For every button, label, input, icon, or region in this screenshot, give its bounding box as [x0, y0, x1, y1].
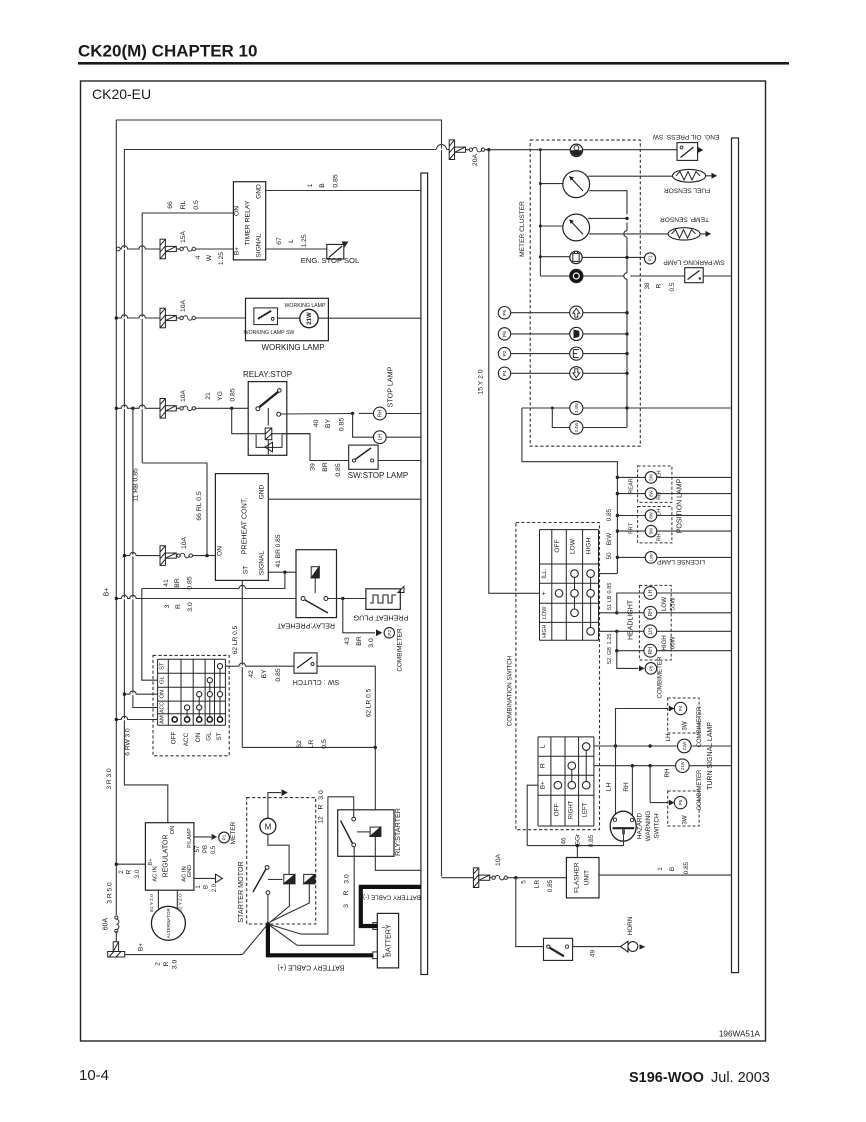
svg-text:57: 57: [195, 845, 201, 852]
wire timer ON 66 RL 0.5: [142, 213, 233, 463]
junction meter feed: [487, 148, 490, 151]
wire preheat GND to ground bar: [268, 498, 421, 500]
svg-text:RH: RH: [664, 769, 671, 778]
svg-text:3.0: 3.0: [172, 960, 179, 970]
horn switch box: [544, 938, 573, 960]
svg-text:TURN SIGNAL LAMP: TURN SIGNAL LAMP: [707, 722, 714, 790]
svg-text:WARNING: WARNING: [645, 811, 652, 842]
fuse F 10A working: [160, 308, 176, 328]
svg-text:0.85: 0.85: [339, 418, 346, 431]
preheat controller box: [215, 474, 268, 581]
wire low RH to ground bar: [657, 612, 732, 614]
svg-text:PREHEAT CONT.: PREHEAT CONT.: [240, 498, 249, 555]
eng stop solenoid: [327, 244, 344, 259]
wire alternator AC1: [157, 890, 159, 908]
wire 3 R 3.0 battery to relay: [297, 847, 354, 946]
svg-text:LICENSE LAMP: LICENSE LAMP: [656, 558, 705, 565]
wire high LH to ground bar: [657, 630, 732, 632]
svg-text:LH: LH: [648, 589, 654, 596]
ground bus bar left: [421, 173, 428, 975]
wire P5 to indicator: [511, 312, 570, 314]
svg-text:0.5: 0.5: [321, 739, 328, 749]
svg-text:B+: B+: [540, 781, 547, 789]
wire preheat relay B+ 3 R 3.0: [116, 598, 301, 600]
svg-text:BR: BR: [356, 636, 363, 646]
svg-text:ENG. STOP SOL: ENG. STOP SOL: [301, 256, 359, 265]
svg-text:10A: 10A: [495, 853, 502, 866]
meter cluster dashed box: [530, 140, 640, 446]
svg-text:RH: RH: [377, 410, 383, 418]
indicator symbol P5: [570, 306, 583, 319]
wire stop coil out to stop lamp switch: [282, 434, 349, 461]
junction clutch node: [374, 746, 377, 749]
svg-text:PB: PB: [203, 845, 209, 853]
indicator symbol P4: [570, 367, 583, 380]
svg-text:AM: AM: [160, 715, 166, 724]
key switch grid: [158, 658, 226, 660]
wire cluster feed: [485, 149, 530, 151]
svg-text:6 RW 3.0: 6 RW 3.0: [125, 728, 132, 756]
wire 60A to battery symbol: [115, 931, 117, 942]
relay preheat contacts: [301, 597, 305, 601]
svg-text:10-4: 10-4: [79, 1067, 109, 1084]
svg-text:B: B: [669, 867, 676, 871]
svg-text:3 R 3.0: 3 R 3.0: [106, 768, 113, 790]
connector P6: [498, 328, 510, 340]
p4 dashed box: [668, 698, 699, 733]
svg-text:51: 51: [607, 604, 613, 610]
svg-text:3: 3: [164, 604, 171, 608]
svg-text:W: W: [206, 254, 213, 261]
hop timer-wire over ON bus: [122, 248, 127, 250]
preheat ST wire 62 LR 0.5: [241, 580, 243, 747]
wire preheat fuse feed: [124, 555, 160, 557]
fuse coil flasher: [492, 876, 508, 880]
parking lamp switch box: [685, 268, 704, 283]
svg-text:1: 1: [307, 183, 314, 187]
svg-text:LOW: LOW: [542, 606, 548, 619]
svg-text:39: 39: [310, 463, 317, 471]
wire license to ground bar: [657, 556, 732, 558]
wire cluster lamp feed from ILL: [522, 407, 552, 409]
svg-text:50: 50: [606, 552, 613, 560]
svg-text:HIGH: HIGH: [586, 538, 593, 555]
wire stop RH to ground bar: [386, 413, 421, 415]
svg-text:LH: LH: [657, 509, 663, 516]
svg-text:B+: B+: [148, 858, 154, 866]
relay preheat box: [296, 550, 337, 618]
wire alternator AC2: [176, 890, 178, 908]
svg-text:5W: 5W: [649, 473, 654, 480]
headlamp HIGH RH: [644, 644, 657, 657]
connector P2 combimeter: [384, 628, 394, 638]
wire hourmeter out: [583, 149, 677, 151]
preheat plug box: [366, 589, 400, 610]
svg-text:LH: LH: [648, 628, 654, 635]
svg-text:55W: 55W: [670, 597, 677, 610]
svg-text:RELAY:STOP: RELAY:STOP: [243, 370, 292, 379]
wire parking switch to ground bar: [703, 275, 731, 277]
svg-text:2: 2: [155, 962, 162, 966]
svg-text:L: L: [540, 744, 547, 748]
svg-text:STOP LAMP: STOP LAMP: [386, 366, 395, 407]
svg-text:B+: B+: [234, 247, 241, 255]
svg-text:60W: 60W: [670, 636, 677, 649]
position lamp RH 5W wire: [616, 529, 619, 532]
svg-text:RH: RH: [657, 533, 663, 541]
wire turn LH to ground bar: [691, 745, 731, 747]
headlight switch grid: [540, 529, 599, 531]
svg-text:RH: RH: [648, 609, 654, 617]
svg-text:ON: ON: [195, 732, 202, 742]
battery feed symbol: [108, 942, 125, 957]
rly starter lever: [341, 821, 353, 844]
svg-text:67: 67: [276, 237, 283, 245]
svg-text:1.25: 1.25: [218, 252, 225, 265]
svg-text:P4: P4: [502, 370, 508, 376]
svg-text:ALTERNATOR: ALTERNATOR: [166, 908, 171, 939]
svg-text:3.4W: 3.4W: [574, 403, 579, 413]
position lamp RH 8W: [645, 488, 657, 500]
wire solenoid2 down: [271, 884, 309, 922]
wire oil indicator to parking switch: [583, 275, 624, 277]
svg-text:P6: P6: [502, 331, 508, 337]
junction preheat signal: [283, 571, 286, 574]
hop working-wire over 66RL vertical: [140, 317, 145, 319]
svg-text:1.25: 1.25: [301, 234, 308, 247]
svg-text:LOW: LOW: [661, 597, 668, 611]
wire stop LH branch: [353, 413, 374, 437]
position lamp LH 8W: [645, 510, 657, 522]
svg-text:10W: 10W: [650, 553, 654, 561]
svg-text:LEFT: LEFT: [583, 802, 589, 817]
header rule: [78, 62, 789, 65]
svg-text:P6: P6: [648, 665, 653, 671]
svg-text:LH: LH: [606, 783, 613, 792]
wire ON bus vertical lower: [124, 556, 167, 823]
hop right bus over temp wire: [624, 231, 627, 237]
svg-text:196WA51A: 196WA51A: [719, 1030, 761, 1039]
starter solenoid coil 2: [304, 874, 315, 883]
fuse F 15A: [160, 239, 176, 259]
svg-text:BY: BY: [325, 419, 332, 429]
svg-text:P1: P1: [648, 255, 653, 261]
svg-text:STARTER MOTOR: STARTER MOTOR: [236, 861, 245, 923]
svg-text:20A: 20A: [472, 153, 479, 166]
fuse F 10A preheat: [160, 546, 176, 566]
wire position RH to ground bar: [657, 493, 732, 495]
position lamp dashed box REAR: [638, 466, 672, 502]
wire working lamp feed: [116, 317, 160, 319]
wire regulator GND 1 B 2.0: [194, 877, 215, 879]
wire key ST out 42 BY 0.85: [225, 665, 239, 667]
svg-text:FRT: FRT: [629, 523, 635, 534]
svg-text:3.0: 3.0: [134, 869, 141, 878]
wire key AM feed: [116, 719, 157, 721]
svg-text:66 RL 0.5: 66 RL 0.5: [196, 491, 203, 520]
wire stop relay out 40 BY 0.85: [281, 413, 353, 416]
junction horn branch: [514, 876, 517, 879]
wire flasher L: [576, 846, 578, 858]
battery cable plus thick: [268, 924, 373, 955]
svg-text:ST: ST: [216, 732, 223, 740]
svg-text:HEADLIGHT: HEADLIGHT: [628, 599, 635, 640]
relay stop contacts: [256, 407, 260, 411]
terminal circle on bus: [116, 247, 120, 251]
svg-text:BATTERY CABLE (-): BATTERY CABLE (-): [363, 894, 421, 901]
wire stop LH to ground bar: [386, 436, 421, 438]
svg-text:R: R: [656, 283, 663, 288]
svg-text:ON: ON: [234, 206, 241, 216]
svg-text:41: 41: [163, 579, 170, 587]
wire headlight HIGH out 52 GB 1.25: [599, 630, 617, 632]
svg-text:P2: P2: [387, 630, 392, 636]
svg-text:10A: 10A: [180, 389, 187, 402]
svg-text:ILL.: ILL.: [542, 568, 548, 578]
turn lamp LH 21W: [678, 739, 692, 753]
svg-text:FLASHER: FLASHER: [574, 862, 581, 893]
wire starter M to solenoid: [268, 834, 289, 874]
clutch switch box: [294, 653, 317, 673]
relay stop box: [248, 382, 287, 456]
svg-text:62: 62: [296, 740, 303, 748]
hop preheat-wire over ACC vertical: [130, 555, 135, 557]
wire stop relay feed: [116, 407, 160, 409]
svg-text:COMBIMETER: COMBIMETER: [697, 706, 703, 747]
wire stop switch to ground bar: [378, 460, 421, 462]
wire indicator P5 to bus: [583, 312, 627, 314]
svg-text:21W: 21W: [682, 742, 687, 751]
svg-text:–: –: [382, 925, 386, 932]
wire turn RH to ground bar: [689, 765, 731, 767]
wire position LH to ground bar: [657, 476, 732, 478]
wire turn L out: [594, 745, 678, 747]
svg-text:BR: BR: [174, 578, 181, 588]
starter M circle: [260, 818, 276, 834]
fuse coil 20A: [469, 147, 485, 151]
svg-text:OFF: OFF: [554, 804, 561, 817]
wire rly coil to ground bar: [375, 836, 421, 870]
combination switch dashed box: [516, 523, 600, 830]
svg-text:3.4W: 3.4W: [574, 423, 579, 433]
eng oil press switch box: [677, 143, 698, 161]
hop B+wire over ACC vertical: [130, 598, 135, 600]
svg-text:RLY:STARTER: RLY:STARTER: [393, 808, 402, 856]
wire high beam RH branch: [617, 631, 644, 650]
license lamp wire: [616, 556, 619, 559]
svg-text:42: 42: [248, 670, 255, 678]
svg-text:3.0: 3.0: [187, 602, 194, 612]
hop B+wire over ON bus: [122, 598, 127, 600]
rly starter box: [338, 810, 394, 857]
wire ON bus top loop: [124, 150, 436, 556]
svg-text:49: 49: [589, 950, 596, 958]
wire indicator P2 to bus: [583, 353, 627, 355]
svg-text:BrW: BrW: [606, 532, 613, 545]
svg-text:GL: GL: [160, 676, 166, 685]
fuel gauge: [539, 182, 542, 185]
p5 dashed box: [668, 791, 699, 826]
svg-text:3.0: 3.0: [318, 790, 325, 800]
connector P1 meter: [219, 832, 230, 843]
svg-text:3.0: 3.0: [368, 638, 375, 648]
stop lamp switch box: [349, 445, 378, 469]
svg-text:21: 21: [205, 392, 212, 400]
battery terminal minus: [373, 923, 378, 930]
svg-text:BY: BY: [261, 669, 268, 679]
svg-text:0.5: 0.5: [193, 200, 200, 210]
turn lamp RH 21W: [676, 759, 690, 773]
svg-text:ST: ST: [160, 662, 166, 670]
svg-text:COMBIMETER: COMBIMETER: [697, 769, 703, 810]
svg-text:TEMP. SENSOR: TEMP. SENSOR: [660, 216, 709, 223]
svg-text:2.0: 2.0: [212, 883, 218, 892]
svg-text:+: +: [381, 954, 385, 961]
svg-text:P4: P4: [678, 705, 683, 711]
flasher unit box: [566, 858, 599, 898]
battery cable minus thick: [361, 887, 421, 926]
wire flasher to ground bar 1 B 0.85: [599, 874, 732, 876]
svg-text:WORKING LAMP: WORKING LAMP: [261, 343, 324, 352]
svg-text:HIGH: HIGH: [661, 635, 668, 650]
headlamp LOW LH: [644, 587, 657, 600]
headlight dashed box: [639, 585, 671, 660]
wire position RH to ground bar: [657, 530, 732, 532]
position lamp LH 5W wire: [616, 476, 619, 479]
svg-text:UNIT: UNIT: [584, 870, 591, 885]
junction timer ON feed: [205, 554, 208, 557]
svg-text:LOW: LOW: [570, 538, 577, 554]
svg-text:CK20(M) CHAPTER 10: CK20(M) CHAPTER 10: [78, 42, 257, 61]
svg-text:1.25: 1.25: [607, 634, 613, 645]
position lamp RH 8W wire: [616, 492, 619, 495]
timer relay box: [233, 182, 265, 260]
svg-text:LH: LH: [657, 470, 663, 477]
svg-text:R: R: [126, 869, 133, 874]
svg-text:40: 40: [313, 420, 320, 428]
svg-text:8W: 8W: [649, 511, 654, 518]
svg-text:FUEL SENSOR: FUEL SENSOR: [664, 187, 711, 194]
svg-text:WORKING LAMP SW: WORKING LAMP SW: [244, 330, 295, 336]
wire clutch out 62 LR 0.5: [317, 666, 375, 747]
svg-text:Jul. 2003: Jul. 2003: [711, 1070, 770, 1086]
fuse coil working: [180, 316, 196, 320]
fuse coil preheat: [177, 553, 193, 557]
svg-text:LH: LH: [377, 434, 383, 441]
svg-text:LR: LR: [308, 740, 315, 749]
svg-text:8W: 8W: [649, 489, 654, 496]
svg-text:OFF: OFF: [554, 539, 561, 552]
svg-text:LH: LH: [665, 734, 672, 742]
wire ILL out: [599, 573, 618, 575]
cluster lamp 3.4W lower: [570, 421, 583, 434]
fuse F 10A flasher: [473, 868, 489, 888]
wire hazard LH: [615, 746, 617, 818]
svg-text:R: R: [175, 604, 182, 609]
svg-text:RH: RH: [648, 647, 654, 655]
junction stop coil branch: [230, 407, 233, 410]
svg-text:0.85: 0.85: [588, 834, 595, 847]
svg-text:GND: GND: [256, 184, 263, 199]
wire temp gauge to node: [588, 217, 627, 219]
hop working-wire over ON bus: [122, 317, 127, 319]
battery terminal plus: [373, 952, 378, 959]
wire regulator P/LAMP 57 PB 0.5: [194, 836, 211, 838]
license lamp: [645, 552, 657, 564]
svg-text:15A: 15A: [180, 230, 187, 243]
wire key ON feed: [124, 693, 157, 695]
relay stop coil: [265, 428, 272, 440]
svg-text:M: M: [265, 822, 272, 831]
wire indicator P4 to bus: [583, 372, 627, 374]
svg-text:ST: ST: [243, 566, 250, 574]
svg-text:GND: GND: [187, 865, 193, 878]
relay preheat coil: [311, 567, 319, 578]
wire cluster ground to bar: [627, 407, 732, 409]
svg-text:ON: ON: [170, 826, 176, 835]
wire horn feed: [516, 878, 544, 947]
wire B+ top loop: [116, 120, 441, 877]
hop stop-wire over 66RL vertical: [140, 407, 145, 409]
svg-text:0.85: 0.85: [332, 174, 339, 187]
svg-text:R: R: [540, 763, 547, 768]
regulator box: [145, 823, 194, 891]
fuse F 20A: [449, 149, 469, 151]
connector P5 turn RH: [674, 796, 686, 808]
svg-text:BR: BR: [322, 462, 329, 472]
wire 66RL to preheat node: [142, 463, 207, 556]
wire timer B+ feed: [119, 248, 160, 250]
svg-text:R: R: [318, 804, 325, 809]
svg-text:B: B: [204, 885, 210, 889]
svg-text:TIMER RELAY: TIMER RELAY: [245, 200, 252, 245]
svg-text:ON: ON: [160, 690, 166, 699]
svg-text:+: +: [541, 591, 548, 595]
svg-text:REGULATOR: REGULATOR: [163, 835, 170, 878]
junction starter node: [266, 922, 270, 926]
wire temp gauge to temp sensor: [589, 233, 668, 235]
svg-text:R: R: [163, 961, 170, 966]
svg-text:S196-WOO: S196-WOO: [629, 1070, 704, 1086]
temp gauge: [539, 225, 542, 228]
svg-text:HORN: HORN: [627, 916, 634, 935]
wire low LH to ground bar: [657, 592, 732, 594]
working lamp switch: [254, 308, 278, 325]
wire battery B+ 2 R 3.0: [125, 954, 243, 956]
wire cluster lamps left: [552, 407, 569, 409]
svg-text:YG: YG: [217, 391, 224, 401]
svg-text:43: 43: [344, 637, 351, 645]
position lamp RH 5W: [645, 525, 657, 537]
svg-text:COMBIMETER: COMBIMETER: [397, 628, 404, 672]
svg-text:COMBIMETER: COMBIMETER: [657, 656, 664, 698]
svg-text:HIGH: HIGH: [542, 625, 548, 638]
svg-text:RELAY:PREHEAT: RELAY:PREHEAT: [276, 622, 335, 631]
svg-text:R: R: [343, 890, 350, 895]
headlight switch contacts: [574, 574, 576, 613]
battery box: [377, 913, 398, 968]
fuel sensor: [673, 169, 706, 182]
wire 12 R 3.0 relay to starter: [268, 797, 354, 934]
wire timer GND 1 B 0.85: [266, 190, 421, 192]
turn switch contacts: [585, 747, 587, 786]
ground bus bar right: [732, 138, 739, 973]
position lamp dashed box FRT: [638, 507, 672, 543]
temp sensor: [668, 228, 700, 240]
svg-text:CK20-EU: CK20-EU: [92, 86, 151, 102]
svg-text:2: 2: [118, 870, 125, 874]
svg-text:4: 4: [195, 255, 202, 259]
